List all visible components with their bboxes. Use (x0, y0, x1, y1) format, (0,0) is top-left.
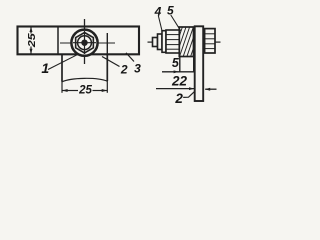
svg-text:4: 4 (154, 4, 162, 18)
hatched plate section (179, 27, 193, 57)
tab left edge / extension line (61, 54, 63, 81)
dimension 25 horizontal left arrow (62, 89, 67, 92)
svg-text:5: 5 (167, 4, 174, 18)
nut chamfer circle (78, 36, 92, 50)
vertical plate (part 2, side view) (195, 26, 204, 101)
dimension 25 vertical bottom arrow (30, 49, 33, 54)
leg below section (side view) (179, 57, 181, 72)
bolt head (158, 34, 163, 50)
break line arc (62, 78, 107, 81)
svg-text:1: 1 (41, 60, 49, 76)
leader for dim 2 (183, 92, 194, 98)
plate outline (top view, part 1) (18, 27, 140, 55)
right side arrow pointing left (205, 88, 216, 90)
horizontal centerline (60, 42, 115, 44)
dimension 25 horizontal right arrow (102, 89, 107, 92)
bolt tip (153, 38, 158, 47)
stud end (filled) (81, 40, 87, 46)
dim 22 arrow (189, 87, 194, 90)
washer outer circle (71, 30, 97, 56)
dimension 25 horizontal line segments (62, 90, 78, 92)
nut lines (205, 33, 215, 35)
hatch lines (179, 27, 193, 57)
leader line for label 4 (158, 16, 162, 31)
leader line for label 1 (48, 54, 78, 69)
svg-text:2: 2 (174, 91, 183, 106)
nut hexagon (76, 33, 94, 53)
inner edge line right (106, 33, 108, 54)
svg-text:25: 25 (26, 33, 38, 48)
nut block (right side) (205, 29, 215, 53)
side view centerline (148, 41, 154, 43)
leg bottom / dim 5 line (162, 71, 197, 73)
svg-text:5: 5 (172, 56, 180, 70)
inner edge line left (57, 27, 59, 55)
svg-text:25: 25 (78, 85, 92, 97)
svg-text:3: 3 (134, 62, 141, 76)
leader line for label 5 (171, 15, 181, 31)
leader line for label 2 (102, 57, 120, 67)
dim 22 line (156, 88, 194, 90)
threaded stud block (166, 30, 179, 53)
thread lines (166, 34, 179, 36)
leader line for label 3 (126, 53, 134, 62)
dim 5 arrow (174, 70, 179, 73)
center cross vertical (84, 31, 86, 54)
tab right edge / extension line (106, 54, 108, 81)
svg-text:2: 2 (120, 63, 128, 77)
washer (side) (162, 31, 166, 53)
dimension 25 vertical line segments (30, 27, 32, 34)
svg-text:22: 22 (171, 74, 188, 89)
dimension 25 vertical top arrow (30, 27, 33, 32)
center cross horizontal (73, 42, 96, 44)
vertical centerline (84, 19, 86, 64)
